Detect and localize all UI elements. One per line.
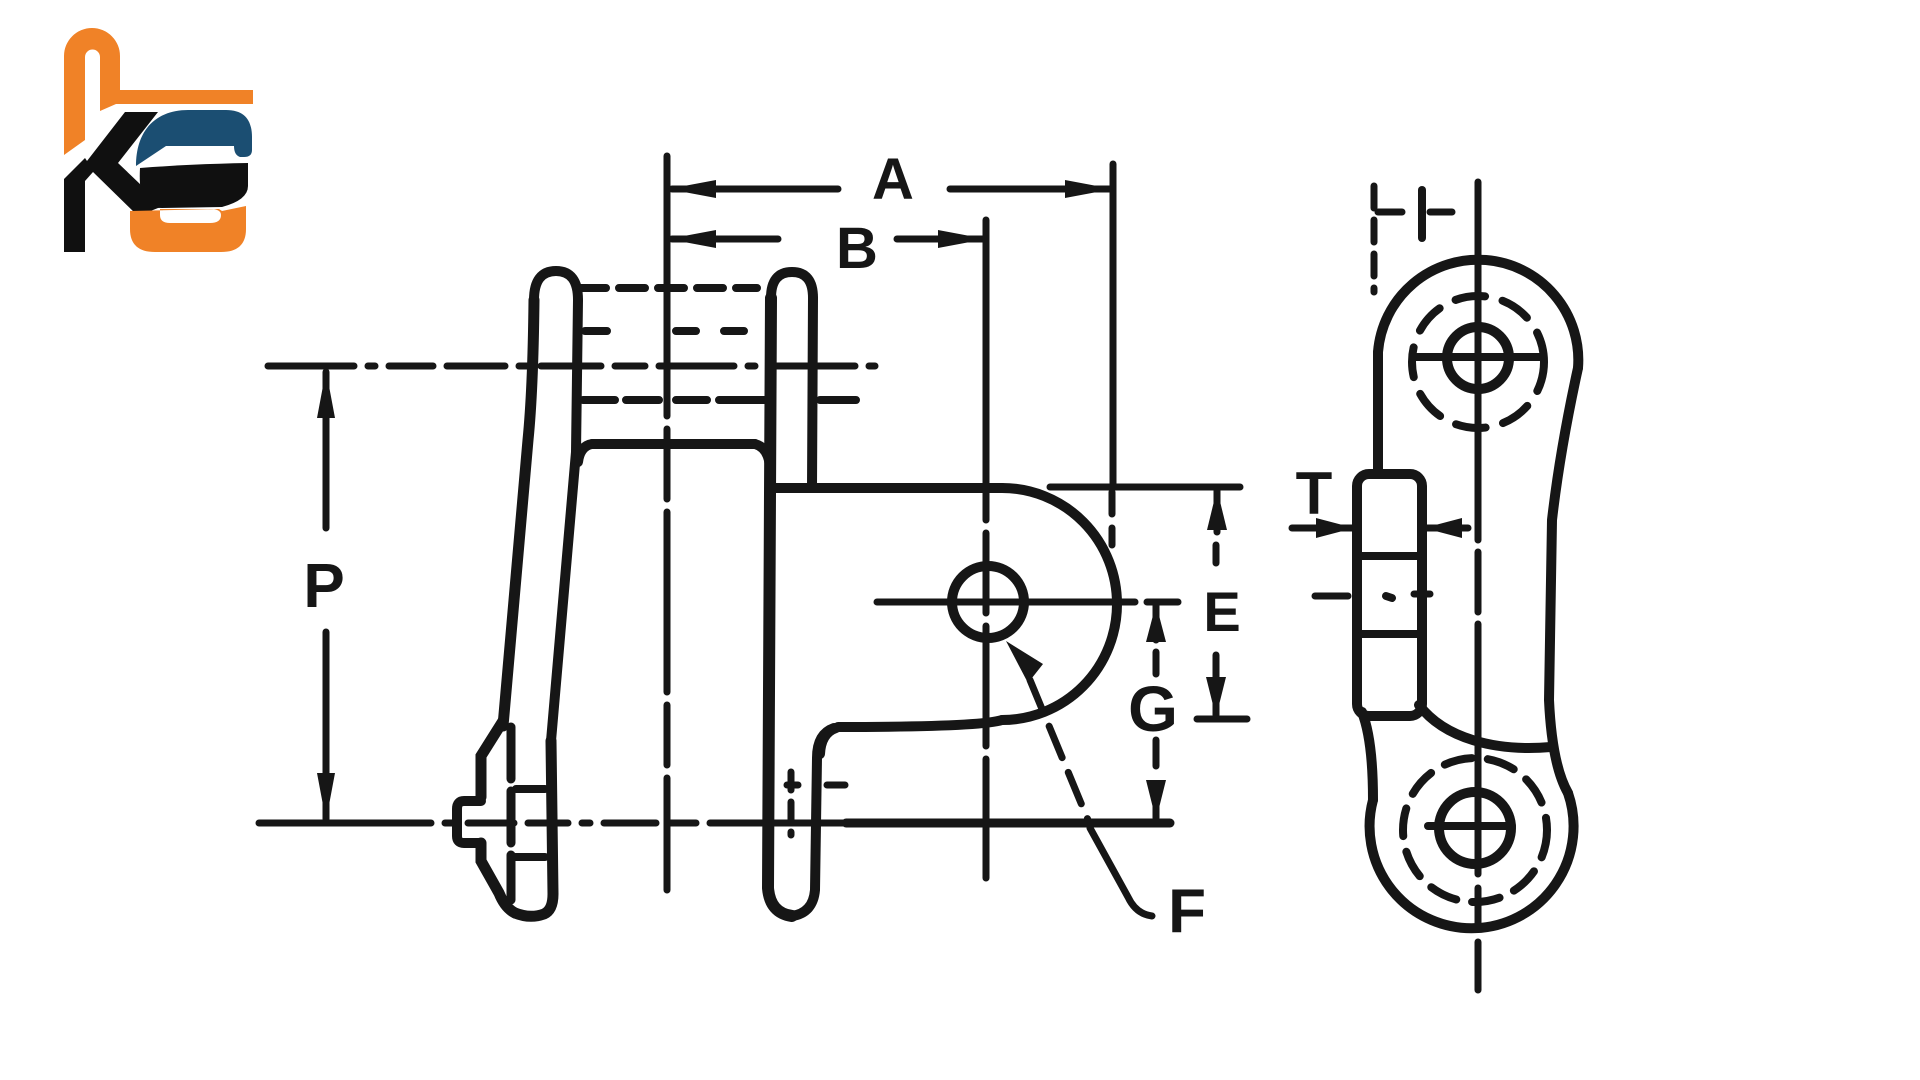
right view top dashed circle: [1412, 296, 1544, 428]
hole horizontal centerline: [877, 599, 1135, 606]
right view top hole: [1447, 327, 1509, 389]
pin hole: [952, 566, 1024, 638]
dimension E foot: [1197, 716, 1247, 723]
svg-text:A: A: [872, 147, 914, 212]
dimension P bottom arrow: [317, 773, 335, 821]
right view plate joint lines: [1362, 556, 1418, 634]
logo orange hook and bar: [64, 28, 253, 155]
hole centerline extension for G: [1147, 599, 1178, 606]
svg-text:E: E: [1203, 580, 1240, 643]
dimension G line upper arrow: [1153, 604, 1160, 640]
leader F arrowhead: [1006, 641, 1043, 683]
right view top hole crosshair: [1413, 353, 1543, 361]
bushing hidden top dashed: [580, 284, 757, 292]
left sidebar inner slant: [551, 300, 578, 741]
svg-text:T: T: [1296, 460, 1333, 527]
right view left edge lower to bottom lobe: [1362, 712, 1373, 800]
dimension T line left: [1292, 525, 1352, 532]
pitch line top horizontal: [268, 363, 875, 370]
plate top edge: [776, 483, 1002, 493]
dimension A right arrow: [1065, 180, 1113, 198]
plate bottom step corner: [820, 728, 836, 754]
dimension G line lower: [1153, 740, 1160, 772]
plate D arc: [1002, 488, 1117, 720]
pitch line bottom horizontal: [259, 820, 845, 827]
dimension A left arrow: [668, 180, 716, 198]
sidebar top right corner curve: [755, 444, 770, 468]
leader F dashed part: [1030, 680, 1088, 820]
bottom pin bottom arc: [515, 741, 553, 916]
logo orange S bottom: [130, 206, 246, 252]
svg-text:P: P: [303, 552, 344, 621]
dimension B line: [672, 236, 983, 243]
dimension A right extension line: [1110, 164, 1117, 487]
logo black S middle: [140, 163, 248, 208]
right view top lobe: [1378, 260, 1578, 368]
dimension E line upper with arrow: [1214, 489, 1221, 532]
right view left edge upper: [1373, 352, 1383, 472]
dimension A line: [672, 186, 1110, 193]
logo blue S top: [136, 110, 252, 166]
centerline barrel vertical: [664, 156, 671, 890]
right view bottom hole crosshair: [1428, 822, 1512, 830]
left sidebar outer slant: [503, 300, 534, 726]
logo black K: [64, 112, 163, 252]
dimension E line lower with arrow: [1213, 655, 1220, 715]
right view bottom hole: [1439, 792, 1511, 864]
right bar left edge full: [768, 298, 792, 916]
dimension T extra ticks: [1315, 594, 1430, 596]
right view top small dimension tick: [1418, 190, 1426, 238]
bottom pin head lower left: [481, 843, 515, 913]
plate lower bottom line: [846, 819, 1170, 828]
right pin lower right edge: [792, 728, 834, 916]
bushing hidden row2 dashed: [585, 327, 744, 335]
bottom pin internal lines: [514, 789, 545, 857]
sidebar top left corner curve: [578, 444, 592, 462]
dimension B left arrow: [668, 230, 716, 248]
dimension P top arrow: [317, 370, 335, 418]
centerline hole vertical: [983, 220, 990, 878]
right pin cap: [771, 272, 813, 298]
logo KS top-left: [64, 28, 253, 252]
dimension T line right: [1426, 525, 1468, 532]
right view plate (T bar): [1357, 474, 1422, 716]
dimension P line: [323, 372, 330, 819]
svg-text:B: B: [836, 216, 878, 281]
bottom pin nub: [457, 801, 481, 843]
right pin upper right edge: [812, 298, 813, 488]
bushing hidden row3 dashed: [583, 396, 856, 404]
svg-text:F: F: [1168, 877, 1206, 946]
right view top small dimension dashed extension: [1371, 186, 1378, 292]
bottom pin internal vertical: [507, 727, 516, 900]
right view bottom lobe: [1370, 793, 1574, 928]
left pin cap: [534, 271, 578, 300]
right pin hidden dashes: [787, 782, 845, 789]
plate bottom edge: [838, 720, 1002, 727]
sidebar top edge between pins: [592, 439, 755, 449]
right view right S edge: [1549, 368, 1578, 793]
svg-text:G: G: [1128, 673, 1178, 745]
right view top small dimension line: [1378, 209, 1452, 216]
right view bottom lobe top curve: [1419, 705, 1551, 748]
leader F solid part: [1090, 828, 1152, 916]
dimension B right arrow: [938, 230, 986, 248]
right view centerline: [1475, 182, 1482, 990]
dimension E top extension: [1050, 484, 1240, 491]
bottom pin head outline: [481, 721, 503, 797]
right view bottom dashed circle: [1403, 758, 1547, 902]
